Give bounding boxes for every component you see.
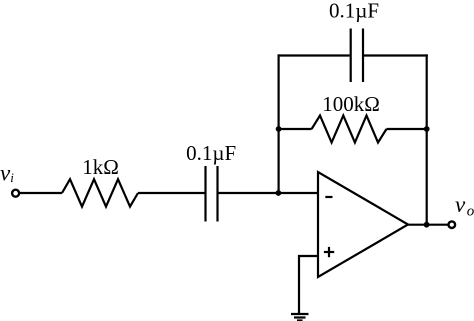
ground: [291, 313, 309, 315]
wire right feedback vertical: [426, 54, 428, 225]
wire capacitor to op-amp inverting input: [219, 192, 319, 194]
junction dot output: [424, 222, 430, 228]
svg-text:0.1µF: 0.1µF: [186, 141, 236, 165]
junction dot right feedback: [424, 126, 430, 132]
op-amp minus sign: [325, 196, 332, 198]
svg-text:1kΩ: 1kΩ: [82, 155, 119, 179]
capacitor C2 0.1uF plates (feedback): [350, 29, 352, 83]
wire resistor R2 to right vertical: [387, 128, 427, 130]
wire plus input: [299, 256, 318, 314]
op-amp U1 triangle: [318, 172, 408, 277]
node A junction dot: [276, 190, 282, 196]
wire left to resistor R2: [278, 128, 312, 130]
input terminal circle v_i: [12, 190, 19, 197]
wire resistor to capacitor: [138, 192, 205, 194]
svg-text:100kΩ: 100kΩ: [322, 92, 380, 116]
resistor R1 1k ohm: [62, 179, 138, 206]
wire top feedback right: [364, 54, 428, 56]
junction dot left feedback: [276, 126, 282, 132]
capacitor C1 0.1uF plates: [204, 166, 206, 222]
resistor R2 100k ohm: [312, 116, 387, 143]
op-amp plus sign: [324, 251, 334, 253]
wire input to resistor: [20, 192, 62, 194]
svg-text:0.1µF: 0.1µF: [329, 0, 379, 22]
wire node A up left feedback vertical: [278, 54, 280, 193]
wire top feedback left: [278, 54, 350, 56]
output terminal circle v_o: [449, 221, 456, 228]
wire output: [407, 224, 448, 226]
